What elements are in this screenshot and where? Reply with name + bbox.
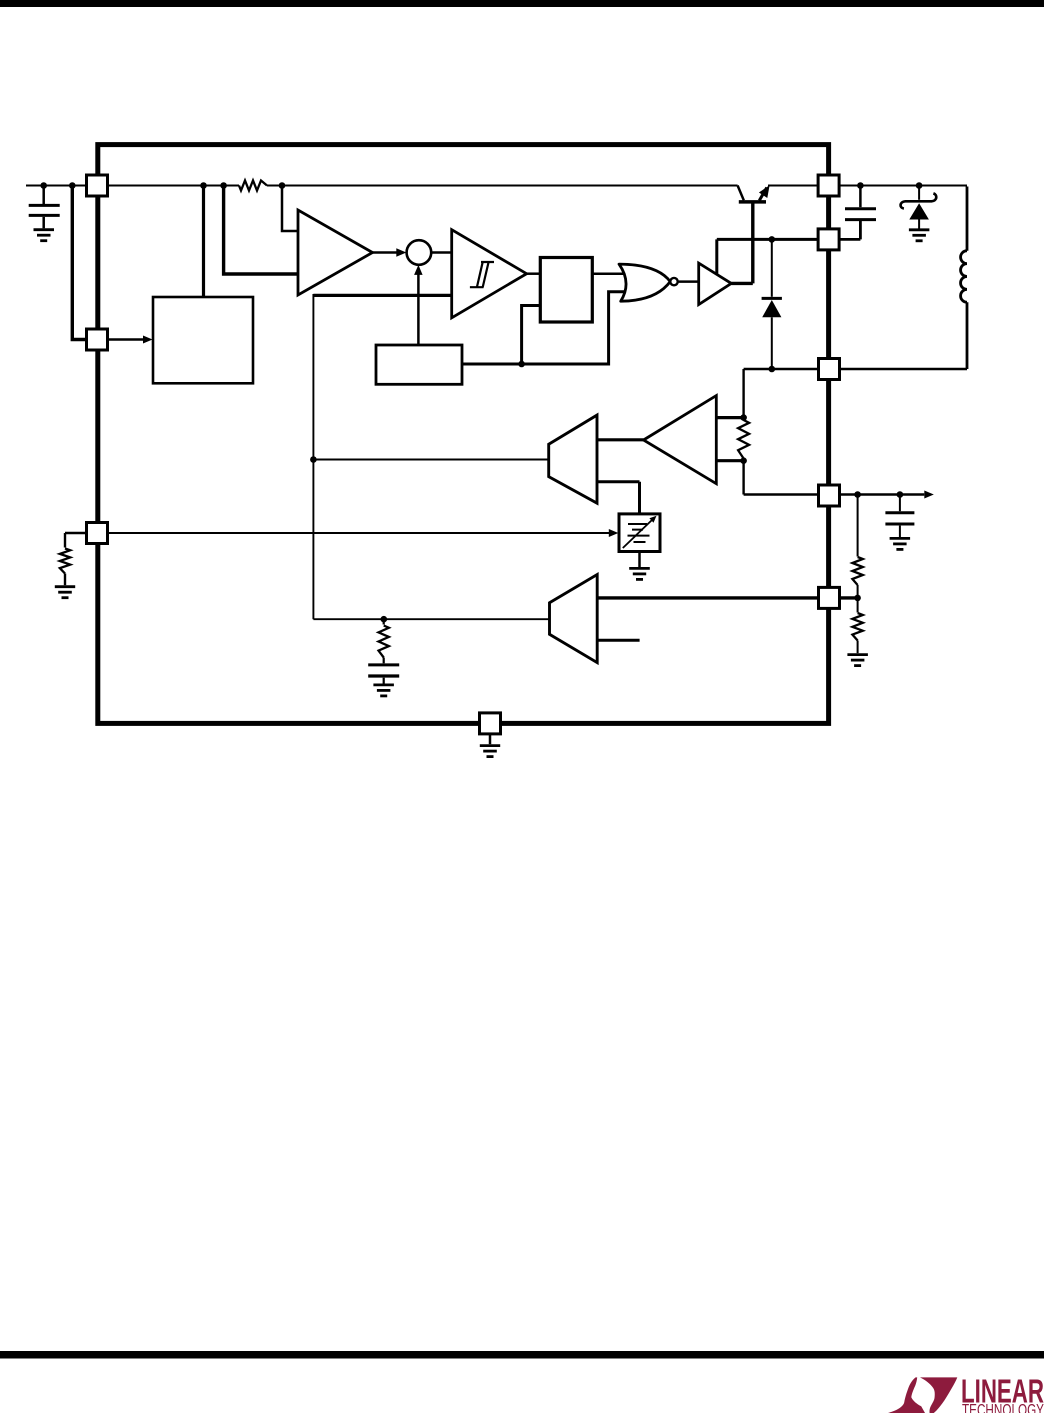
svg-text:TECHNOLOGY: TECHNOLOGY — [962, 1401, 1044, 1414]
